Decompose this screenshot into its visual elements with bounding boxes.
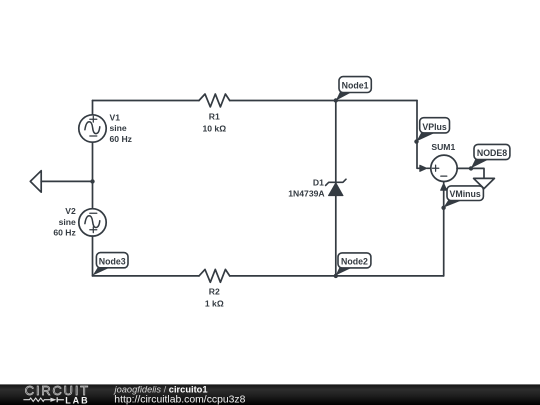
svg-text:VPlus: VPlus xyxy=(422,122,447,132)
wire bottom from V2 to R2 xyxy=(93,275,200,277)
wire right vertical down to SUM1 plus input xyxy=(417,101,421,169)
svg-text:joaogfidelis / circuito1: joaogfidelis / circuito1 xyxy=(113,384,208,394)
resistor R1 xyxy=(199,94,230,133)
arrow into SUM1 minus input xyxy=(441,182,447,191)
footer logo LAB xyxy=(65,396,90,405)
node label Node2 xyxy=(336,253,371,276)
node label NODE8 xyxy=(471,144,510,168)
svg-text:D1: D1 xyxy=(313,177,326,187)
summing block U SUM1 xyxy=(431,142,457,182)
svg-text:sine: sine xyxy=(110,123,127,133)
wire top from R1 to right corner xyxy=(230,100,417,102)
svg-text:V2: V2 xyxy=(65,206,76,216)
junction dot at V1/V2 node xyxy=(90,179,94,183)
svg-text:Node2: Node2 xyxy=(341,257,368,267)
wire V1 top lead xyxy=(92,101,94,115)
svg-text:LAB: LAB xyxy=(65,396,90,405)
node label VMinus xyxy=(443,186,483,208)
svg-text:R2: R2 xyxy=(209,286,220,296)
junction dot node1 xyxy=(334,98,338,102)
svg-text:60 Hz: 60 Hz xyxy=(53,227,75,237)
svg-text:R1: R1 xyxy=(209,111,220,121)
wire between V1 and V2 xyxy=(92,142,94,209)
wire bottom from R2 to right xyxy=(230,275,444,277)
svg-text:Node3: Node3 xyxy=(99,256,126,266)
svg-text:NODE8: NODE8 xyxy=(477,148,507,158)
junction dot node2 xyxy=(334,274,338,278)
output terminal arrow xyxy=(474,178,495,188)
svg-text:SUM1: SUM1 xyxy=(431,142,455,152)
node label Node1 xyxy=(336,77,372,101)
wire right bottom vertical to SUM1 minus input xyxy=(443,190,445,276)
svg-text:V1: V1 xyxy=(110,113,121,123)
voltage source V2 xyxy=(53,206,106,237)
footer logo CIRCUIT xyxy=(25,383,90,398)
svg-text:Node1: Node1 xyxy=(342,81,369,91)
junction dot VMinus anchor xyxy=(441,206,445,210)
input terminal arrow xyxy=(30,171,92,193)
junction dot NODE8 anchor xyxy=(469,166,473,170)
svg-text:10 kΩ: 10 kΩ xyxy=(202,123,226,133)
wire top from V1 to R1 xyxy=(93,100,200,102)
arrow into SUM1 plus input xyxy=(420,165,431,171)
wire V2 bottom lead xyxy=(92,236,94,276)
svg-text:60 Hz: 60 Hz xyxy=(110,134,132,144)
svg-text:sine: sine xyxy=(59,217,76,227)
footer bar xyxy=(0,384,540,405)
svg-text:VMinus: VMinus xyxy=(450,189,481,199)
wire SUM1 output xyxy=(457,168,484,178)
zener diode D1 xyxy=(288,177,346,198)
junction dot VPlus anchor xyxy=(414,139,418,143)
footer logo resistor-diode glyph xyxy=(23,397,64,402)
voltage source V1 xyxy=(79,113,132,144)
svg-text:1N4739A: 1N4739A xyxy=(288,189,324,199)
svg-text:1 kΩ: 1 kΩ xyxy=(205,298,224,308)
svg-text:http://circuitlab.com/ccpu3z8: http://circuitlab.com/ccpu3z8 xyxy=(114,394,245,405)
node label VPlus xyxy=(416,118,449,142)
footer credit line xyxy=(113,384,246,405)
resistor R2 xyxy=(199,269,230,308)
wire middle vertical with D1 xyxy=(335,101,337,276)
node label Node3 xyxy=(93,253,128,276)
